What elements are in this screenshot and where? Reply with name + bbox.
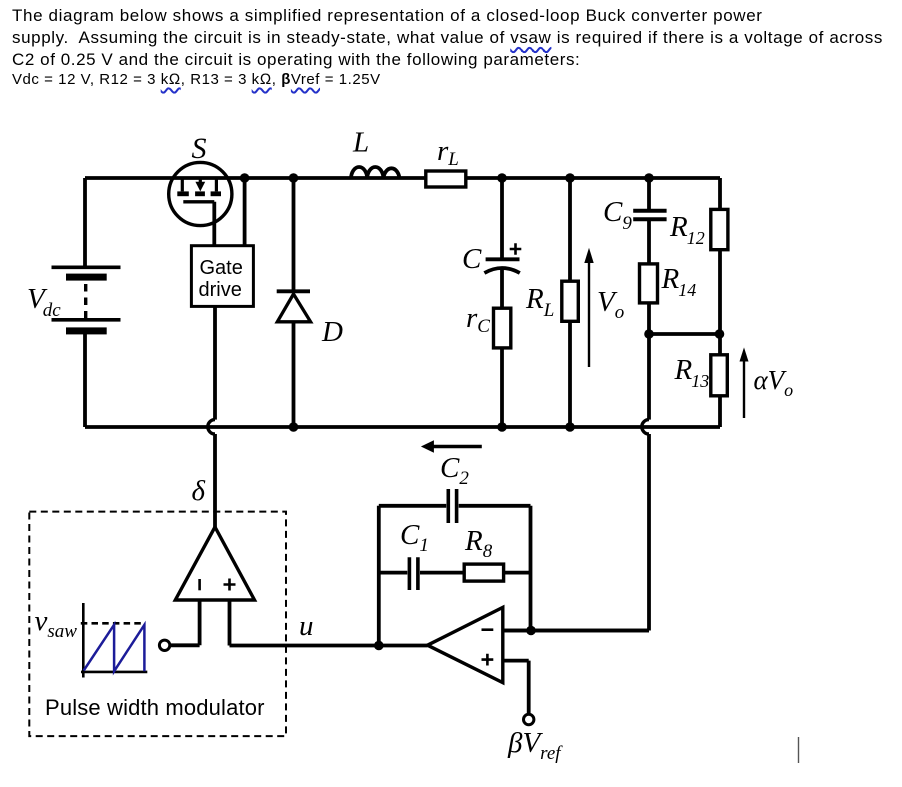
svg-text:Vo: Vo — [597, 286, 624, 323]
svg-text:S: S — [192, 132, 207, 165]
svg-text:C9: C9 — [603, 196, 632, 234]
svg-text:R13: R13 — [674, 354, 710, 391]
svg-text:rL: rL — [437, 135, 459, 170]
svg-text:C1: C1 — [400, 519, 429, 556]
svg-text:RL: RL — [525, 283, 554, 321]
svg-text:C: C — [462, 243, 482, 275]
svg-text:R12: R12 — [669, 211, 705, 248]
svg-text:u: u — [299, 610, 314, 642]
svg-text:rC: rC — [466, 302, 490, 337]
svg-text:C2: C2 — [440, 452, 469, 489]
svg-text:D: D — [321, 316, 343, 348]
svg-text:Vdc: Vdc — [27, 283, 61, 321]
svg-text:Gate: Gate — [200, 257, 243, 279]
svg-text:vsaw: vsaw — [35, 605, 78, 642]
svg-text:δ: δ — [192, 475, 206, 507]
svg-text:drive: drive — [199, 279, 242, 301]
svg-text:αVo: αVo — [754, 365, 794, 400]
svg-text:Pulse width modulator: Pulse width modulator — [45, 695, 265, 720]
svg-text:R8: R8 — [464, 525, 493, 562]
svg-text:βVref: βVref — [507, 727, 563, 764]
svg-text:R14: R14 — [661, 263, 697, 300]
svg-text:L: L — [352, 127, 369, 159]
